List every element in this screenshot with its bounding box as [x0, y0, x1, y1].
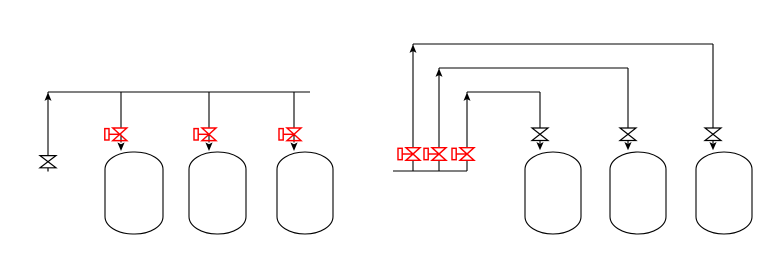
down arrowhead into tank L2 [205, 142, 212, 151]
wire: right riser 1 vertical [412, 44, 414, 148]
up arrowhead riser 1 [410, 44, 417, 53]
tank R1 [525, 152, 581, 234]
control valve CV4 (red, riser 1) [398, 148, 420, 161]
wire: stub below valve R2 [627, 141, 629, 144]
valve (manual, left standalone) [40, 156, 56, 172]
down arrowhead into tank R2 [624, 142, 631, 150]
up arrowhead riser 2 [436, 68, 443, 77]
up arrowhead into left header [45, 92, 52, 101]
tank L2 [189, 152, 246, 234]
wire: right header 1 [413, 43, 713, 45]
tank R3 [696, 152, 752, 234]
down arrowhead into tank R1 [536, 142, 543, 150]
tank L3 [277, 152, 333, 234]
wire: header 3 down drop [539, 92, 541, 128]
down arrowhead into tank L3 [290, 142, 297, 151]
wire: bottom supply line [393, 170, 467, 172]
wire: drop 2 from header [208, 92, 210, 128]
wire: header 2 down drop [627, 68, 629, 128]
tank L1 [105, 152, 163, 234]
wire: drop 1 from header [120, 92, 122, 128]
valve (manual) above tank R1 [532, 128, 548, 141]
control valve CV1 (red) [105, 128, 127, 141]
wire: stub below valve R1 [539, 141, 541, 144]
wire: right header 2 [439, 67, 628, 69]
up arrowhead riser 3 [464, 92, 471, 101]
down arrowhead into tank R3 [709, 142, 716, 150]
control valve CV5 (red, riser 2) [424, 148, 446, 161]
wire: drop 3 from header [293, 92, 295, 128]
wire: stub below valve R3 [712, 141, 714, 144]
valve (manual) above tank R2 [620, 128, 636, 141]
valve (manual) above tank R3 [705, 128, 721, 141]
tank R2 [610, 152, 666, 234]
wire: right riser 3 vertical [466, 92, 468, 148]
control valve CV2 (red) [194, 128, 216, 141]
down arrowhead into tank L1 [117, 142, 124, 151]
control valve CV3 (red) [279, 128, 301, 141]
control valve CV6 (red, riser 3) [452, 148, 474, 161]
wire: right riser 2 vertical [438, 68, 440, 148]
wire: left header [48, 91, 310, 93]
wire: header 1 down drop [712, 44, 714, 128]
wire: right header 3 [467, 91, 540, 93]
wire: left branch vertical [47, 92, 49, 156]
